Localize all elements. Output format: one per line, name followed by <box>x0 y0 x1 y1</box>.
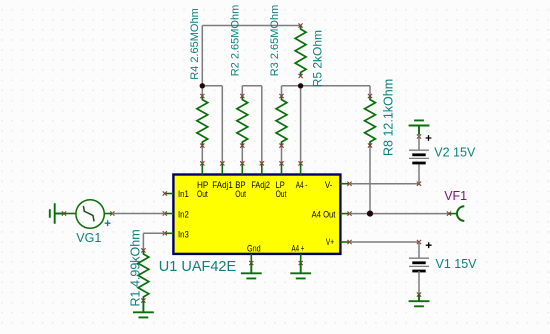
wire <box>369 144 371 214</box>
svg-text:R1 4.99kOhm: R1 4.99kOhm <box>129 229 143 306</box>
wire <box>143 232 164 234</box>
resistor R4 label <box>189 8 201 80</box>
IC U1 UAF42E body <box>173 175 340 254</box>
pin V- stub <box>341 182 352 186</box>
svg-text:FAdj1: FAdj1 <box>212 180 233 190</box>
svg-text:R2 2.65MOhm: R2 2.65MOhm <box>230 5 242 77</box>
ground below V1 <box>409 295 430 307</box>
resistor R8 label <box>382 79 396 156</box>
svg-text:Out: Out <box>197 189 208 199</box>
svg-text:In1: In1 <box>178 189 189 199</box>
wire <box>300 86 302 164</box>
wire <box>418 242 420 258</box>
wire <box>142 233 144 250</box>
svg-text:U1 UAF42E: U1 UAF42E <box>159 259 237 275</box>
svg-text:R8 12.1kOhm: R8 12.1kOhm <box>382 79 396 156</box>
wire <box>281 146 283 164</box>
svg-text:VG1: VG1 <box>76 231 101 245</box>
pin LP Out stub <box>279 161 283 174</box>
wire <box>369 86 371 96</box>
resistor R1 <box>138 248 149 302</box>
svg-text:FAdj2: FAdj2 <box>251 180 270 190</box>
svg-text:R4 2.65MOhm: R4 2.65MOhm <box>189 8 201 80</box>
svg-text:R3 2.65MOhm: R3 2.65MOhm <box>269 5 281 77</box>
wire <box>350 240 422 244</box>
resistor R2 label <box>230 5 242 77</box>
resistor R5 label <box>310 30 324 87</box>
wire <box>112 213 165 215</box>
resistor R4 <box>197 94 208 148</box>
wire <box>241 146 243 164</box>
pin BP Out stub <box>240 161 244 174</box>
pin In3 stub <box>163 231 174 235</box>
svg-text:V2 15V: V2 15V <box>434 145 476 159</box>
wire <box>201 146 203 164</box>
svg-text:In2: In2 <box>178 209 189 219</box>
pin name labels <box>178 180 336 254</box>
pin HP Out stub <box>200 161 204 174</box>
VG1 plus <box>105 220 111 226</box>
resistor R1 label <box>129 229 143 306</box>
resistor R8 <box>365 94 376 148</box>
wire <box>105 211 115 215</box>
svg-text:A4 -: A4 - <box>296 180 308 190</box>
resistor R3 <box>276 94 287 148</box>
node A (R4/FAdj1 junction) <box>200 83 205 88</box>
wire <box>62 211 76 215</box>
ground above V2 <box>409 120 430 134</box>
wire <box>202 85 222 87</box>
pin In2 stub <box>163 211 174 215</box>
svg-text:R5 2kOhm: R5 2kOhm <box>310 30 324 87</box>
wire <box>221 86 223 164</box>
pin V+ stub <box>341 240 352 244</box>
svg-text:In3: In3 <box>178 229 189 239</box>
pin A4- stub <box>299 161 303 174</box>
wire <box>301 85 370 87</box>
wire <box>281 86 283 96</box>
wire <box>261 86 263 164</box>
V1 plus <box>426 242 432 248</box>
V2 plus <box>426 135 432 141</box>
node C (A4 Out/R8 junction) <box>367 211 373 217</box>
wire <box>350 182 422 186</box>
wire <box>242 85 261 87</box>
node B (R5/R8/A4- junction) <box>298 83 303 88</box>
wire <box>201 26 203 97</box>
battery V2 <box>409 134 429 163</box>
U1 label <box>159 259 237 275</box>
V1 label <box>436 257 478 271</box>
svg-text:Gnd: Gnd <box>247 244 261 254</box>
probe VF1 <box>447 206 464 221</box>
resistor R5 <box>295 23 306 78</box>
wire <box>202 25 300 27</box>
svg-text:V-: V- <box>325 180 333 190</box>
svg-text:A4 Out: A4 Out <box>312 209 336 219</box>
svg-text:Out: Out <box>235 189 246 199</box>
ground below R1 <box>133 301 154 318</box>
svg-text:Out: Out <box>276 189 287 199</box>
source VG1 <box>76 200 104 228</box>
wire <box>350 213 450 215</box>
ground at Gnd pin <box>241 254 262 278</box>
ground at VG1 <box>50 203 64 223</box>
V2 label <box>434 145 476 159</box>
pin In1 stub <box>163 191 174 195</box>
resistor R3 label <box>269 5 281 77</box>
wire <box>282 85 301 87</box>
svg-text:A4 +: A4 + <box>292 244 305 254</box>
battery V1 <box>409 258 429 271</box>
VF1 label <box>444 189 467 203</box>
pin FAdj2 stub <box>260 161 264 174</box>
svg-text:V1 15V: V1 15V <box>436 257 478 271</box>
VG1 label <box>76 231 101 245</box>
resistor R2 <box>237 94 248 148</box>
svg-text:VF1: VF1 <box>444 189 467 203</box>
wire <box>418 163 420 184</box>
pin A4Out stub <box>341 212 352 216</box>
pin FAdj1 stub <box>220 161 224 174</box>
wire <box>241 86 243 96</box>
wire <box>417 271 421 297</box>
svg-text:V+: V+ <box>326 237 334 247</box>
ground at A4+ pin <box>290 254 311 278</box>
